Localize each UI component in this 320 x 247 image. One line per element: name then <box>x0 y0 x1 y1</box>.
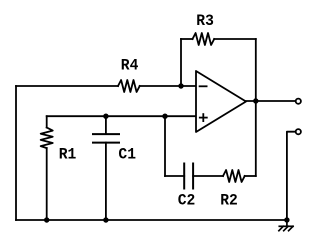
node junction dot C1 bottom <box>103 217 108 222</box>
capacitor C2 <box>184 164 193 189</box>
wire C2 branch vertical <box>164 116 166 176</box>
wire left vertical <box>15 86 17 220</box>
wire right vertical feedback up to output <box>255 101 257 176</box>
wire R1 bottom lead <box>46 148 48 220</box>
svg-text:C: C <box>178 191 187 209</box>
label R3 <box>196 12 214 30</box>
wire R3 top left <box>181 38 193 40</box>
wire C1 bottom lead <box>105 143 107 220</box>
terminal lower output circle <box>296 129 301 134</box>
op-amp minus sign <box>200 85 207 87</box>
ground <box>279 220 293 231</box>
label C2 <box>178 191 196 209</box>
wire C2 branch horizontal <box>165 175 184 177</box>
resistor R4 <box>118 80 140 92</box>
wire noninverting node line <box>47 115 196 117</box>
svg-text:1: 1 <box>127 145 136 163</box>
wire bottom horizontal <box>16 219 287 221</box>
resistor R1 <box>41 128 53 149</box>
node junction dot at R3 tap <box>178 83 183 88</box>
wire top horizontal left of R4 <box>16 85 118 87</box>
op-amp plus sign <box>200 114 207 121</box>
wire output horizontal <box>246 100 295 102</box>
capacitor C1 <box>93 134 119 143</box>
svg-text:C: C <box>118 145 127 163</box>
node junction dot R1 bottom <box>44 217 49 222</box>
wire R3 top right <box>214 38 256 40</box>
svg-text:2: 2 <box>187 191 196 209</box>
resistor R3 <box>193 33 215 45</box>
wire C1 top lead <box>105 116 107 134</box>
node junction dot at output <box>253 98 258 103</box>
svg-text:4: 4 <box>130 57 139 75</box>
svg-text:1: 1 <box>68 145 77 163</box>
label R2 <box>220 191 238 209</box>
op-amp U1 <box>196 71 246 132</box>
terminal upper output circle <box>296 99 301 104</box>
node junction dot C1 top <box>103 114 108 119</box>
wire R3 right vertical down to output <box>255 39 257 101</box>
wire C2 to R2 <box>193 175 223 177</box>
node junction dot ground <box>284 217 289 222</box>
wire R3 left vertical <box>180 39 182 86</box>
wire lower terminal to ground vertical <box>287 132 296 220</box>
wire R1 top lead <box>46 116 48 127</box>
node junction dot C2 branch tap <box>162 114 167 119</box>
label C1 <box>118 145 136 163</box>
label R1 <box>59 145 77 163</box>
svg-text:3: 3 <box>205 12 214 30</box>
label R4 <box>121 57 139 75</box>
resistor R2 <box>223 170 245 182</box>
wire R2 to right vertical <box>245 175 256 177</box>
wire R4 to op-amp minus input <box>140 85 196 87</box>
svg-text:2: 2 <box>229 191 238 209</box>
